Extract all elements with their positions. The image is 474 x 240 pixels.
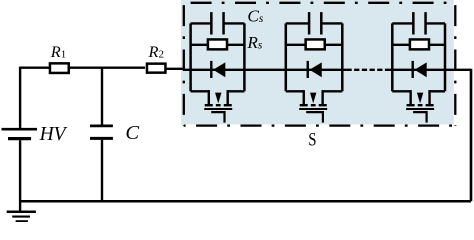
wire battery bottom lead (19, 140, 21, 212)
capacitor Cs cell2 right plate (320, 12, 323, 34)
wire cell2 right vertical (341, 23, 344, 91)
snubber network box fill (181, 0, 454, 124)
wire cell1 right vertical (243, 23, 246, 91)
svg-text:HV: HV (39, 124, 68, 145)
transistor Q3 drain terminal (409, 90, 411, 104)
wire cell2 Cs branch left (286, 22, 309, 24)
ground bar 2 (12, 216, 30, 218)
resistor Rs cell2 body (306, 39, 325, 49)
svg-text:S: S (308, 129, 316, 150)
diode D2 cathode bar (307, 61, 309, 78)
wire cell2 mosfet rail left (286, 90, 304, 92)
diode D1 cathode bar (210, 61, 212, 78)
transistor Q3 gate bar (406, 108, 434, 110)
snubber box border top (184, 2, 456, 4)
transistor Q1 channel segment 2 (216, 104, 221, 106)
transistor Q2 gate bar (299, 108, 327, 110)
transistor Q1 channel segment 1 (205, 104, 213, 106)
wire cell3 mosfet rail right (430, 90, 445, 92)
capacitor Cs cell1 left plate (210, 12, 213, 34)
wire main bus right section (390, 69, 471, 71)
transistor Q3 body arrow (417, 93, 423, 104)
transistor Q3 channel segment 3 (426, 104, 434, 106)
capacitor Cs cell2 left plate (308, 12, 311, 34)
transistor Q1 body arrow (215, 93, 221, 104)
wire main top bus in box (183, 69, 346, 71)
transistor Q2 channel segment 2 (311, 104, 316, 106)
transistor Q1 source terminal (226, 90, 228, 104)
wire capacitor C bottom lead (101, 140, 103, 202)
transistor Q1 gate bar (204, 108, 232, 110)
capacitor C bottom plate (90, 137, 113, 140)
svg-text:C: C (125, 122, 139, 144)
resistor Rs cell1 body (208, 39, 227, 49)
svg-text:R2: R2 (148, 42, 164, 61)
transistor Q1 drain terminal (208, 90, 210, 104)
resistor R2 (147, 64, 166, 73)
wire battery top lead (19, 67, 21, 128)
wire cell2 mosfet rail right (323, 90, 343, 92)
wire cell3 mosfet rail left (392, 90, 410, 92)
ground bar 1 (7, 211, 36, 214)
wire cell2 Rs branch (286, 44, 343, 46)
transistor Q2 drain terminal (303, 90, 305, 104)
wire cell1 mosfet rail right (228, 90, 245, 92)
wire cell1 Cs branch right (224, 22, 245, 24)
snubber box border bottom (184, 124, 456, 126)
wire cell3 right vertical (444, 23, 447, 91)
capacitor Cs cell3 right plate (424, 12, 427, 34)
resistor R1 (50, 63, 69, 73)
transistor Q2 body arrow (310, 93, 316, 104)
wire cell2 left vertical (285, 23, 288, 91)
transistor Q3 channel segment 1 (407, 104, 415, 106)
wire cell3 Rs branch (392, 44, 445, 46)
snubber cell 1 (191, 12, 245, 123)
wire main top bus left (20, 66, 145, 68)
wire cell3 left vertical (391, 23, 394, 91)
ground bar 3 (16, 220, 28, 222)
diode D3 cathode bar (412, 61, 414, 78)
diode D1 triangle (213, 62, 225, 77)
capacitor Cs cell3 left plate (412, 12, 415, 34)
snubber cell 2 (286, 12, 343, 123)
snubber cell 3 (392, 12, 445, 123)
snubber box border right (454, 3, 456, 126)
wire dashed continuation (346, 69, 389, 71)
transistor Q2 gate lead (306, 112, 323, 123)
transistor Q3 gate lead (413, 112, 427, 123)
wire cell1 Rs branch (191, 44, 245, 46)
transistor Q1 channel segment 3 (224, 104, 232, 106)
diode D2 triangle (310, 62, 322, 77)
wire capacitor C top lead (101, 68, 103, 125)
transistor Q2 source terminal (321, 90, 323, 104)
battery HV positive plate (2, 128, 38, 131)
transistor Q2 channel segment 3 (319, 104, 327, 106)
resistor Rs cell3 body (410, 39, 429, 49)
wire right return vertical (470, 69, 473, 202)
wire cell1 left vertical (189, 23, 192, 91)
wire main top bus middle (166, 68, 184, 70)
wire cell1 Cs branch left (191, 22, 212, 24)
transistor Q1 gate lead (211, 112, 224, 123)
wire cell3 Cs branch left (392, 22, 413, 24)
transistor Q3 channel segment 2 (418, 104, 423, 106)
battery HV negative plate (8, 137, 31, 140)
wire cell3 Cs branch right (426, 22, 445, 24)
snubber box border left (183, 3, 185, 126)
svg-text:R1: R1 (50, 42, 66, 61)
transistor Q3 source terminal (428, 90, 430, 104)
wire cell2 Cs branch right (321, 22, 342, 24)
wire cell1 mosfet rail left (191, 90, 209, 92)
transistor Q2 channel segment 1 (300, 104, 308, 106)
diode D3 triangle (415, 62, 427, 77)
capacitor C top plate (90, 125, 113, 128)
wire bottom return bus (20, 200, 471, 203)
capacitor Cs cell1 right plate (222, 12, 225, 34)
